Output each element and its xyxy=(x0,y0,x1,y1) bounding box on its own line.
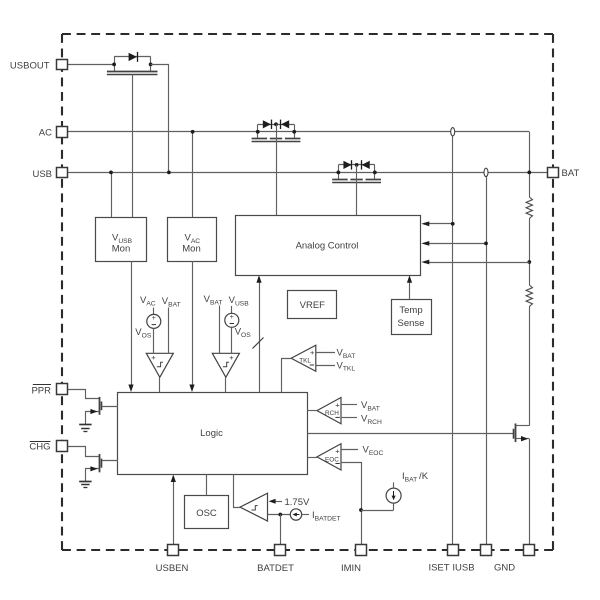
svg-text:Analog Control: Analog Control xyxy=(296,240,359,251)
svg-text:ISET: ISET xyxy=(428,562,449,573)
svg-text:BAT: BAT xyxy=(562,168,580,179)
svg-text:+: + xyxy=(152,315,156,322)
svg-text:IUSB: IUSB xyxy=(452,562,474,573)
svg-text:CHG: CHG xyxy=(29,442,50,453)
svg-text:+: + xyxy=(151,353,156,362)
svg-text:Sense: Sense xyxy=(398,318,425,329)
svg-text:OSC: OSC xyxy=(196,508,217,519)
svg-text:+: + xyxy=(335,446,340,455)
svg-text:Mon: Mon xyxy=(112,244,130,255)
svg-text:EOC: EOC xyxy=(325,456,339,463)
svg-text:AC: AC xyxy=(39,128,52,139)
svg-text:GND: GND xyxy=(494,562,515,573)
svg-text:USB: USB xyxy=(32,169,52,180)
svg-text:IMIN: IMIN xyxy=(341,563,361,574)
svg-text:RCH: RCH xyxy=(325,410,339,417)
svg-text:Temp: Temp xyxy=(399,305,422,316)
svg-text:TKL: TKL xyxy=(299,358,311,365)
svg-text:1.75V: 1.75V xyxy=(285,497,310,508)
svg-text:BATDET: BATDET xyxy=(257,563,294,574)
svg-text:VREF: VREF xyxy=(300,300,326,311)
svg-text:USBOUT: USBOUT xyxy=(10,60,50,71)
svg-text:Logic: Logic xyxy=(200,428,223,439)
svg-text:+: + xyxy=(229,353,234,362)
svg-text:PPR: PPR xyxy=(31,385,51,396)
svg-text:+: + xyxy=(230,314,234,321)
svg-text:+: + xyxy=(335,400,340,409)
svg-text:USBEN: USBEN xyxy=(156,563,189,574)
svg-text:Mon: Mon xyxy=(182,244,200,255)
svg-text:+: + xyxy=(310,348,315,357)
